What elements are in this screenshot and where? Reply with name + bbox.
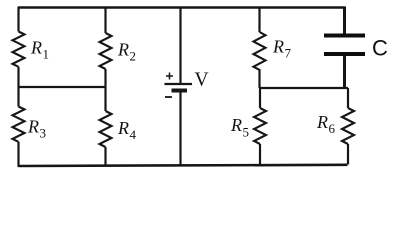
svg-text:R: R bbox=[27, 117, 39, 137]
capacitor C top plate bbox=[324, 34, 365, 38]
battery minus mark bbox=[165, 96, 172, 98]
resistor R7 bbox=[254, 32, 266, 70]
svg-text:R: R bbox=[272, 37, 284, 57]
wire R3 bottom lead bbox=[17, 142, 19, 167]
svg-text:1: 1 bbox=[43, 47, 50, 62]
wire R7 top lead bbox=[258, 7, 260, 33]
battery V positive plate bbox=[165, 83, 193, 85]
wire R4 top lead bbox=[104, 87, 106, 111]
svg-text:6: 6 bbox=[329, 121, 336, 136]
resistor R1 bbox=[13, 32, 25, 67]
svg-text:C: C bbox=[372, 35, 388, 60]
wire capacitor top lead bbox=[343, 7, 346, 35]
wire battery top lead bbox=[179, 7, 181, 85]
svg-text:R: R bbox=[117, 40, 129, 60]
wire R7 bottom lead bbox=[258, 69, 260, 88]
svg-text:5: 5 bbox=[243, 125, 250, 140]
wire battery bottom lead bbox=[179, 91, 181, 167]
wire top bus bbox=[19, 6, 346, 9]
wire R2 bottom lead bbox=[104, 69, 106, 87]
wire R4 bottom lead bbox=[104, 147, 106, 166]
resistor R6 bbox=[342, 108, 354, 144]
battery V negative plate bbox=[172, 89, 188, 93]
wire R1 top lead bbox=[17, 7, 19, 32]
wire R3 top lead bbox=[17, 87, 19, 107]
wire R1 bottom lead bbox=[17, 67, 19, 87]
svg-text:3: 3 bbox=[40, 126, 47, 141]
svg-text:V: V bbox=[195, 69, 209, 90]
svg-text:4: 4 bbox=[130, 127, 137, 142]
resistor R5 bbox=[254, 108, 266, 144]
capacitor C bottom plate bbox=[324, 52, 365, 56]
wire R2 top lead bbox=[104, 7, 106, 34]
wire right middle (node between R7/C and R5/R6) bbox=[260, 87, 349, 89]
svg-text:2: 2 bbox=[130, 49, 137, 64]
wire R6 bottom lead bbox=[347, 144, 349, 165]
wire R5 bottom lead bbox=[259, 144, 261, 165]
wire R5 top lead bbox=[259, 88, 261, 108]
svg-text:R: R bbox=[230, 115, 242, 135]
battery plus mark bbox=[166, 73, 173, 80]
svg-text:R: R bbox=[117, 118, 129, 138]
wire bottom bus bbox=[19, 165, 348, 166]
svg-text:7: 7 bbox=[285, 46, 292, 61]
resistor R3 bbox=[13, 107, 25, 142]
resistor R4 bbox=[100, 111, 112, 147]
resistor R2 bbox=[100, 33, 112, 69]
wire R6 top lead bbox=[347, 88, 349, 108]
svg-text:R: R bbox=[30, 38, 42, 58]
wire capacitor bottom lead bbox=[343, 56, 346, 88]
svg-text:R: R bbox=[316, 112, 328, 132]
wire left middle (node between R1/R2 and R3/R4) bbox=[19, 86, 106, 88]
